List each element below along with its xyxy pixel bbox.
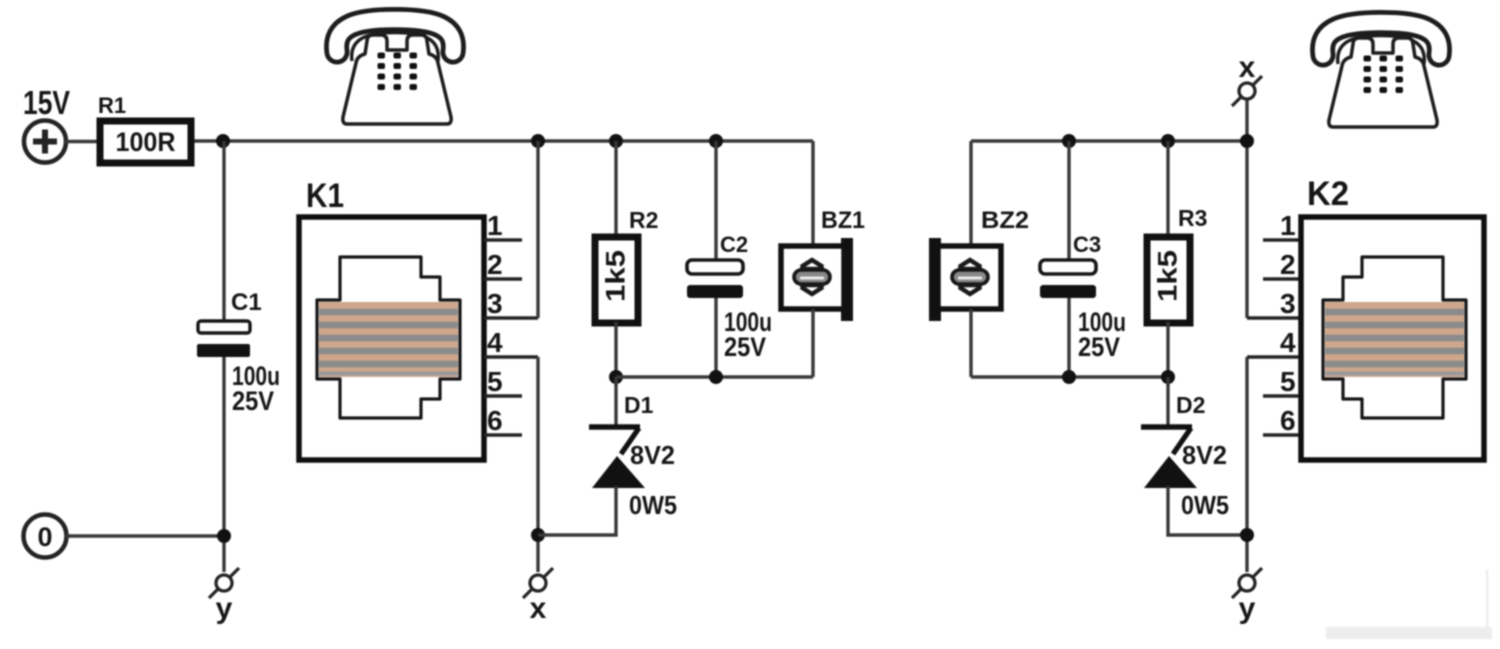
svg-text:3: 3 — [487, 288, 503, 319]
svg-text:6: 6 — [1280, 405, 1296, 436]
connector K1 (RJ jack) — [299, 217, 484, 460]
svg-text:0: 0 — [37, 522, 52, 552]
svg-text:2: 2 — [487, 249, 503, 280]
keypad — [1364, 56, 1404, 94]
phone body — [343, 35, 451, 124]
svg-text:D2: D2 — [1176, 392, 1205, 418]
wire: C1 to bottom node y — [222, 357, 225, 572]
svg-text:BZ1: BZ1 — [821, 207, 865, 234]
node: junction R3/D2 bottom rail — [1161, 370, 1175, 384]
svg-text:1k5: 1k5 — [1153, 250, 1183, 302]
wire: bottom rail right circuit — [971, 375, 1168, 378]
watermark remnant bottom right — [1326, 627, 1492, 639]
resistor R2 — [595, 237, 638, 323]
wire: R2 to bottom rail — [614, 322, 617, 377]
svg-text:R2: R2 — [629, 207, 658, 233]
capacitor C1 (electrolytic) — [197, 321, 250, 357]
svg-text:6: 6 — [487, 405, 503, 436]
svg-text:K1: K1 — [306, 177, 344, 215]
power terminal +15V — [24, 121, 66, 163]
svg-text:R1: R1 — [98, 93, 126, 118]
wire: K2 pin 4 down to node y — [1245, 357, 1248, 572]
wire: C2 to bottom rail — [714, 298, 717, 377]
node: junction pin4/D1/x — [531, 528, 545, 542]
node: junction top rail / C3 — [1062, 134, 1076, 148]
wire: top rail to C2 — [714, 141, 717, 260]
connector K2 (RJ jack) — [1301, 217, 1484, 460]
wire: x terminal down to K2 pin 3 — [1245, 100, 1248, 318]
handset — [1323, 23, 1440, 56]
connector point y (left) — [209, 568, 239, 598]
wire: top rail down to BZ1 — [811, 141, 814, 246]
svg-text:5: 5 — [1280, 366, 1296, 397]
node: junction pin4/D2/y — [1240, 528, 1254, 542]
svg-text:y: y — [216, 592, 233, 625]
node: junction top rail / x wire — [1240, 134, 1254, 148]
node: junction top rail / R2 — [609, 134, 623, 148]
wire: main top rail right circuit — [971, 139, 1247, 142]
keypad — [378, 53, 418, 91]
diode D1 (zener) — [589, 427, 645, 488]
connector point x (left) — [523, 568, 553, 598]
capacitor C2 (electrolytic) — [687, 260, 743, 298]
svg-text:25V: 25V — [724, 332, 766, 362]
node: junction R2/D1 bottom rail — [609, 370, 623, 384]
svg-text:0W5: 0W5 — [1181, 490, 1229, 520]
handset — [337, 20, 454, 53]
svg-text:2: 2 — [1280, 249, 1296, 280]
svg-text:8V2: 8V2 — [1182, 440, 1227, 470]
svg-text:15V: 15V — [23, 84, 70, 121]
svg-text:K2: K2 — [1307, 175, 1349, 213]
node: junction C3 bottom rail — [1062, 370, 1076, 384]
svg-text:25V: 25V — [232, 386, 274, 416]
buzzer BZ2 — [929, 238, 1001, 321]
wire: node to D2 — [1166, 377, 1169, 425]
svg-text:1: 1 — [487, 210, 503, 241]
terminal 0 — [24, 515, 67, 558]
svg-text:x: x — [530, 592, 547, 625]
node: junction top rail / C2 — [709, 134, 723, 148]
svg-text:x: x — [1239, 51, 1256, 84]
wire: top rail to C3 — [1067, 141, 1070, 260]
svg-text:5: 5 — [487, 366, 503, 397]
connector point x (top right) — [1232, 76, 1262, 106]
cradle arc — [352, 33, 439, 62]
svg-text:C1: C1 — [231, 289, 262, 316]
wire: top rail to C1 — [222, 141, 225, 321]
wire: C3 to bottom rail — [1067, 298, 1070, 377]
wire: BZ2 to bottom rail — [969, 309, 972, 377]
wire: bottom rail left circuit — [616, 375, 813, 378]
resistor R3 — [1147, 237, 1190, 323]
svg-text:0W5: 0W5 — [629, 490, 677, 520]
wire: BZ1 to bottom rail — [811, 309, 814, 377]
svg-text:8V2: 8V2 — [630, 440, 675, 470]
cradle arc — [1338, 36, 1425, 65]
svg-text:y: y — [1239, 592, 1256, 625]
wire: main top rail left circuit — [191, 139, 813, 142]
svg-text:R3: R3 — [1178, 205, 1207, 231]
telephone icon right — [1323, 23, 1440, 128]
svg-text:4: 4 — [1280, 327, 1296, 358]
wire: top rail down to K1 pin 3 — [536, 141, 539, 318]
svg-text:C2: C2 — [720, 232, 748, 257]
capacitor C3 (electrolytic) — [1040, 260, 1096, 298]
svg-text:1k5: 1k5 — [601, 250, 631, 302]
node: junction R1/C1 on top rail — [216, 134, 230, 148]
wire: K1 pin 4 down to node x — [536, 357, 539, 572]
svg-text:BZ2: BZ2 — [981, 207, 1029, 234]
svg-text:1: 1 — [1280, 210, 1296, 241]
svg-text:C3: C3 — [1073, 232, 1101, 257]
connector point y (right) — [1232, 568, 1262, 598]
svg-text:25V: 25V — [1078, 332, 1120, 362]
wire: 15V terminal to R1 — [65, 140, 100, 143]
diode D2 (zener) — [1141, 427, 1197, 488]
node: junction C2 bottom rail — [709, 370, 723, 384]
wire: top rail down to BZ2 — [969, 141, 972, 246]
svg-text:4: 4 — [487, 327, 503, 358]
telephone icon left — [337, 20, 454, 125]
svg-text:D1: D1 — [624, 392, 654, 418]
svg-text:3: 3 — [1280, 288, 1296, 319]
resistor R1 — [100, 121, 191, 163]
wire: top rail to R3 — [1166, 141, 1169, 237]
wire: D1 anode to node x — [538, 486, 616, 535]
phone body — [1329, 38, 1437, 127]
node: junction C1/0/y — [217, 529, 231, 543]
node: junction top rail / K1 pin 3 — [531, 134, 545, 148]
buzzer BZ1 — [781, 238, 853, 321]
wire: 0 terminal to node y — [66, 534, 225, 537]
wire: D2 anode to node y right — [1168, 486, 1248, 535]
svg-text:100R: 100R — [116, 127, 176, 157]
wire: R3 to bottom rail — [1166, 322, 1169, 377]
faint scanner artifact line right edge — [1486, 570, 1489, 628]
node: junction top rail / R3 — [1161, 134, 1175, 148]
wire: top rail to R2 — [614, 141, 617, 237]
wire: node to D1 — [614, 377, 617, 425]
